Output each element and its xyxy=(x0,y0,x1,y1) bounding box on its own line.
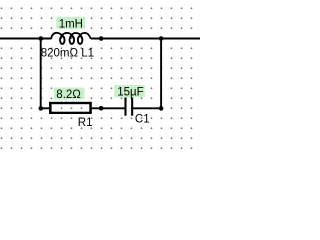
svg-text:R1: R1 xyxy=(78,117,93,129)
svg-text:820mΩ L1: 820mΩ L1 xyxy=(41,48,94,60)
svg-text:1mH: 1mH xyxy=(59,19,83,31)
svg-text:15µF: 15µF xyxy=(117,87,143,99)
svg-text:8.2Ω: 8.2Ω xyxy=(56,89,81,101)
svg-text:C1: C1 xyxy=(135,113,150,125)
